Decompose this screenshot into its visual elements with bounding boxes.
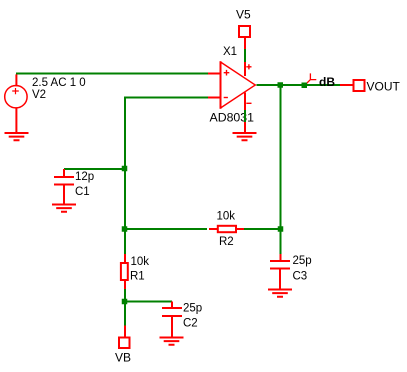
svg-text:dB: dB: [319, 75, 335, 89]
svg-text:C3: C3: [293, 271, 308, 283]
pin VB: [124, 326, 126, 338]
svg-text:V2: V2: [32, 89, 46, 101]
svg-text:10k: 10k: [131, 256, 150, 268]
minus mark supply: [246, 102, 251, 104]
junction node feedback/C2/VB: [122, 299, 128, 305]
port V5: [239, 26, 250, 37]
svg-text:R2: R2: [219, 236, 234, 248]
wire top input (V2 to op-amp +): [16, 73, 209, 75]
ground (C2): [160, 338, 184, 345]
wire V5 to op-amp supply: [244, 48, 246, 62]
pin non-inverting input: [208, 73, 221, 75]
svg-text:VOUT: VOUT: [367, 80, 401, 94]
svg-text:C2: C2: [183, 318, 198, 330]
wire right vertical: [280, 84, 282, 254]
junction node output/right vertical: [278, 82, 284, 88]
pin inverting input: [208, 97, 221, 99]
svg-text:25p: 25p: [293, 255, 312, 267]
junction node feedback/R2: [122, 226, 128, 232]
svg-text:12p: 12p: [75, 171, 94, 183]
capacitor C3: [270, 254, 290, 290]
ground (C1): [52, 205, 76, 212]
wire feedback vertical upper: [124, 97, 126, 255]
plus mark supply: [246, 64, 251, 69]
resistor R1: [121, 254, 128, 289]
wire R2 left: [124, 228, 207, 230]
minus mark input: [224, 97, 228, 99]
wire feedback vertical lower: [124, 289, 126, 326]
svg-text:C1: C1: [75, 186, 90, 198]
wire inverting input (feedback node to op-amp -): [124, 97, 209, 99]
ground (op-amp): [233, 122, 257, 140]
wire VOUT (red pin): [340, 84, 353, 86]
capacitor C2: [162, 302, 182, 338]
svg-text:2.5 AC 1 0: 2.5 AC 1 0: [32, 77, 86, 89]
ground (C3): [268, 290, 292, 297]
port VOUT: [354, 80, 365, 91]
wire op-amp Vss to ground: [244, 110, 246, 122]
voltage source V2: [5, 74, 27, 133]
svg-text:25p: 25p: [183, 303, 202, 315]
junction node R2/C3: [278, 226, 284, 232]
capacitor C1: [54, 169, 74, 205]
probe dB marker: [306, 73, 316, 84]
wire output horizontal: [257, 84, 341, 86]
svg-text:X1: X1: [223, 46, 237, 58]
pin V5: [244, 38, 246, 49]
port VB: [119, 338, 130, 349]
wire R2 right: [244, 228, 282, 230]
junction node feedback/C1: [122, 166, 128, 172]
wire C2 branch: [124, 301, 172, 303]
resistor R2: [209, 226, 244, 232]
svg-text:VB: VB: [115, 351, 131, 365]
op-amp X1: [208, 61, 255, 110]
wire C1 branch: [64, 168, 125, 170]
plus mark input: [224, 70, 230, 76]
ground (V2): [5, 133, 29, 140]
svg-text:10k: 10k: [217, 211, 236, 223]
svg-text:AD8031: AD8031: [210, 111, 255, 125]
svg-text:V5: V5: [236, 8, 251, 22]
junction node output/probe: [302, 83, 308, 89]
svg-text:R1: R1: [130, 271, 145, 283]
pin negative supply: [244, 93, 246, 111]
pin positive supply: [244, 62, 246, 76]
